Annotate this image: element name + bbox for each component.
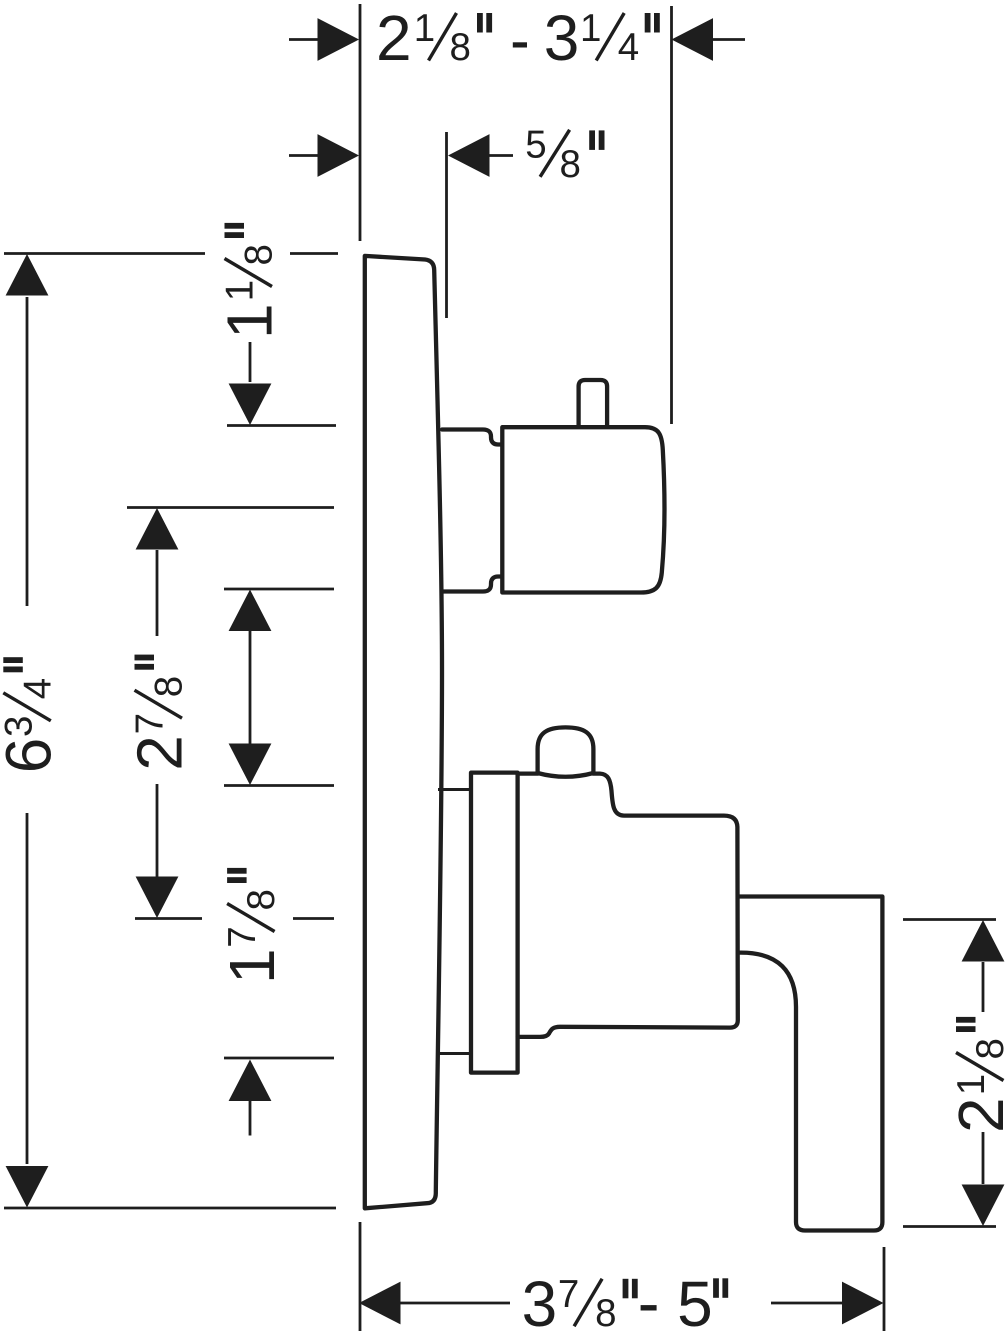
svg-text:5: 5 bbox=[677, 1268, 713, 1336]
svg-text:2: 2 bbox=[945, 1097, 1008, 1133]
svg-text:4: 4 bbox=[618, 26, 639, 69]
svg-text:3: 3 bbox=[544, 2, 580, 74]
svg-text:1: 1 bbox=[216, 948, 288, 984]
svg-text:8: 8 bbox=[560, 143, 581, 186]
svg-text:5: 5 bbox=[525, 124, 546, 167]
svg-text:1: 1 bbox=[214, 303, 286, 339]
svg-text:3: 3 bbox=[522, 1268, 558, 1336]
svg-text:2: 2 bbox=[376, 2, 412, 74]
svg-text:3: 3 bbox=[0, 716, 40, 737]
svg-text:2: 2 bbox=[124, 735, 196, 771]
svg-text:6: 6 bbox=[0, 738, 64, 774]
svg-text:1: 1 bbox=[580, 7, 601, 50]
svg-text:4: 4 bbox=[16, 678, 59, 699]
